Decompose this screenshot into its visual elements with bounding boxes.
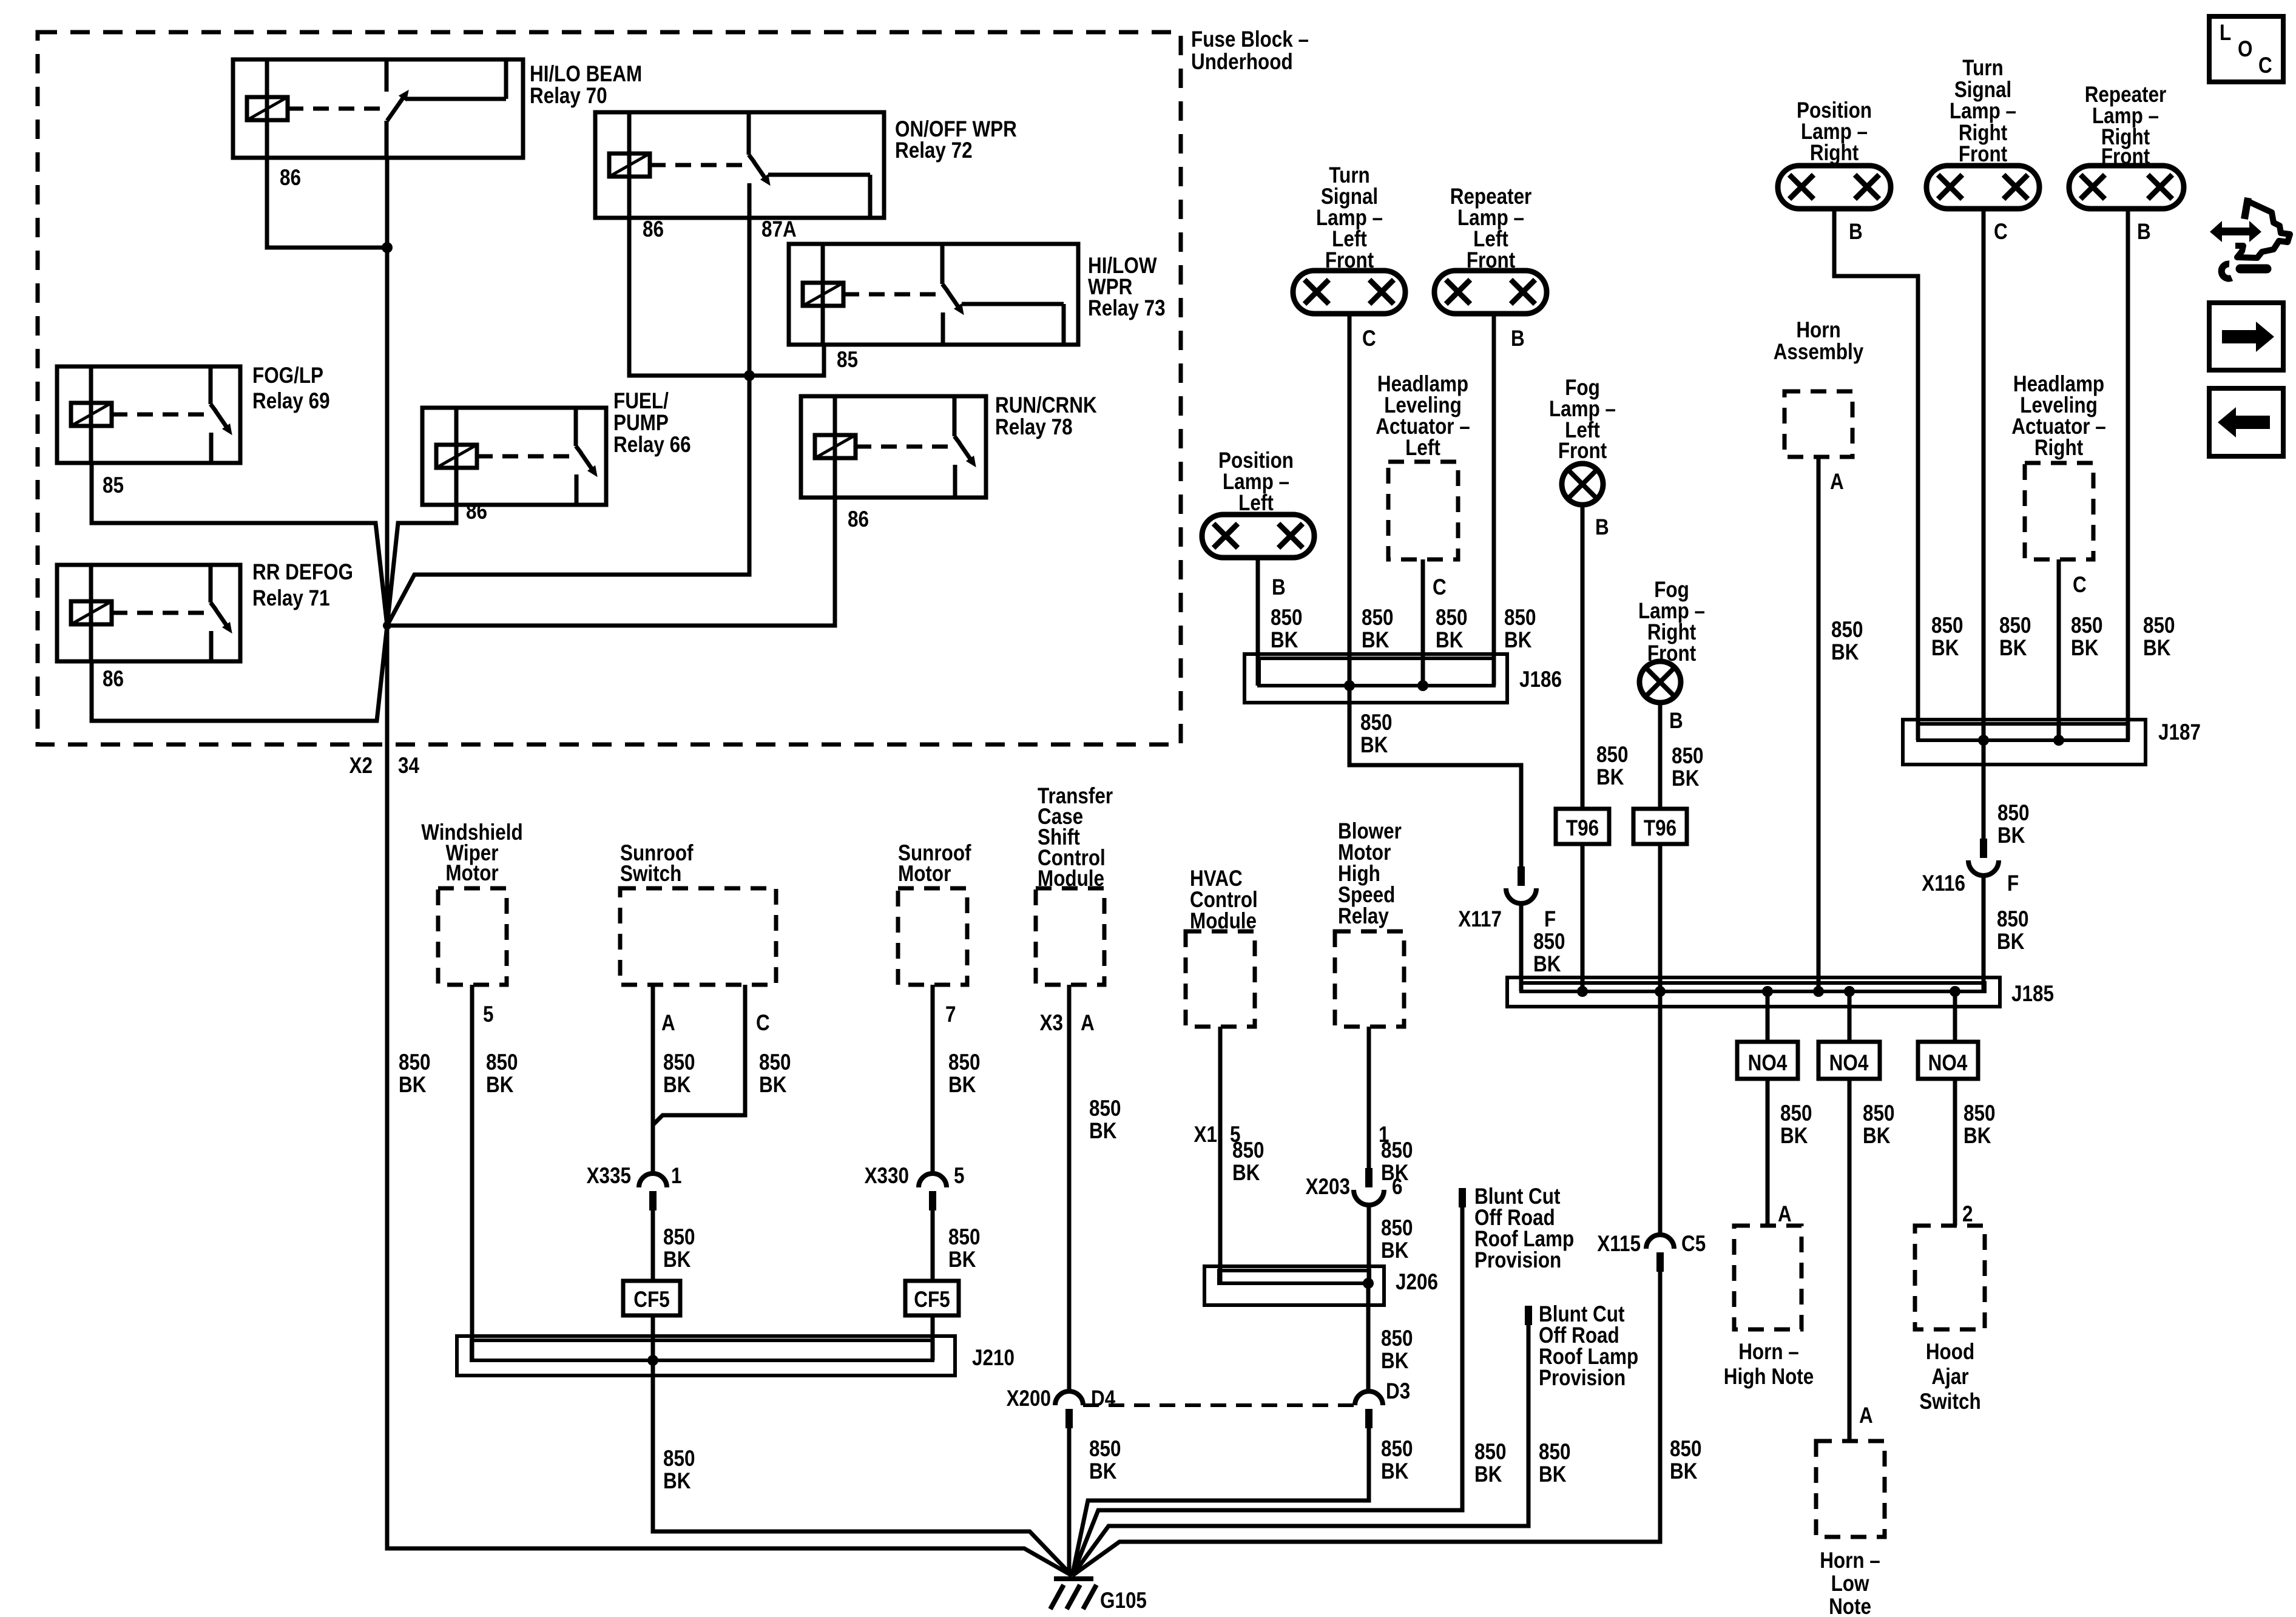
fuse T96 right	[1633, 809, 1687, 844]
svg-text:Left: Left	[1405, 436, 1440, 461]
svg-text:850: 850	[399, 1050, 430, 1075]
svg-text:BK: BK	[1670, 1459, 1698, 1484]
splice pack J187	[1903, 720, 2146, 765]
wire relay70 pin86 down and right to trunk	[267, 158, 387, 248]
connector X116	[1980, 839, 1987, 858]
wire repeater left B to J186	[1492, 314, 1496, 686]
svg-text:86: 86	[466, 499, 487, 524]
svg-text:850: 850	[1596, 743, 1628, 768]
svg-text:B: B	[1511, 326, 1525, 351]
svg-text:BK: BK	[1780, 1124, 1808, 1149]
wire position right B to J187	[1834, 209, 1918, 740]
wire NO4 middle to horn low note	[1848, 1079, 1852, 1441]
svg-text:C: C	[1433, 575, 1447, 600]
fuse T96 left	[1556, 809, 1609, 844]
svg-text:BK: BK	[1381, 1238, 1409, 1263]
svg-text:A: A	[1081, 1011, 1095, 1036]
svg-text:2: 2	[1962, 1202, 1973, 1227]
svg-text:BK: BK	[2143, 636, 2171, 661]
svg-text:85: 85	[103, 473, 124, 498]
wire turn right C to J187	[1982, 209, 1986, 740]
svg-text:T96: T96	[1566, 816, 1599, 841]
svg-text:T96: T96	[1644, 816, 1676, 841]
wire relay78 pin86 to main junction	[387, 498, 835, 626]
svg-text:850: 850	[1533, 930, 1565, 954]
svg-text:RUN/CRNK: RUN/CRNK	[995, 393, 1097, 418]
svg-text:BK: BK	[1997, 930, 2025, 954]
connector X117	[1518, 866, 1525, 886]
wire T96 right to J185	[1658, 844, 1663, 991]
svg-text:850: 850	[1863, 1101, 1894, 1126]
component box Horn Assembly	[1784, 391, 1852, 457]
svg-text:850: 850	[948, 1050, 980, 1075]
component box Headlamp Leveling Actuator Left	[1388, 462, 1458, 559]
svg-text:A: A	[1778, 1202, 1792, 1227]
fuse CF5 right	[905, 1281, 959, 1315]
wire actuator left C to J186	[1421, 559, 1425, 686]
svg-text:BK: BK	[1672, 766, 1700, 791]
svg-text:BK: BK	[1596, 765, 1624, 790]
lamp Position Lamp Left	[1202, 515, 1314, 558]
svg-text:BK: BK	[948, 1247, 976, 1272]
splice pack J186	[1244, 654, 1507, 703]
wire sunroof switch pinA down	[651, 985, 655, 1173]
fuse block underhood dashed border	[38, 32, 1181, 744]
wire actuator right C to J187	[2057, 559, 2061, 740]
svg-text:F: F	[1544, 907, 1556, 932]
svg-text:Underhood: Underhood	[1191, 50, 1293, 75]
svg-text:O: O	[2238, 37, 2252, 62]
svg-text:J210: J210	[972, 1346, 1015, 1371]
svg-text:850: 850	[1931, 613, 1963, 638]
svg-text:BK: BK	[1533, 952, 1561, 977]
svg-text:Provision: Provision	[1474, 1248, 1561, 1273]
svg-text:X335: X335	[587, 1164, 631, 1189]
svg-text:850: 850	[1999, 613, 2031, 638]
wire J187 output to X116	[1982, 740, 1986, 839]
svg-text:D4: D4	[1091, 1386, 1115, 1411]
component box Transfer Case Shift Control Module	[1036, 888, 1104, 985]
component box Horn Low Note	[1816, 1441, 1885, 1537]
svg-text:CF5: CF5	[914, 1288, 950, 1312]
svg-text:Horn: Horn	[1796, 318, 1840, 343]
splice pack J185	[1507, 977, 2000, 1007]
svg-text:BK: BK	[1831, 640, 1859, 665]
wire relay73 pin85 down to 87A junction	[749, 345, 824, 376]
svg-text:Relay 66: Relay 66	[613, 433, 691, 457]
svg-text:B: B	[1849, 220, 1863, 245]
wire X335 to CF5 fuse	[651, 1210, 655, 1281]
svg-text:87A: 87A	[761, 217, 797, 242]
svg-text:850: 850	[1232, 1138, 1264, 1163]
wire J185 to X115 via fog right column	[1658, 991, 1663, 1235]
legend arrow left box	[2209, 388, 2283, 456]
wire windshield wiper motor pin5 to J210	[470, 985, 474, 1360]
svg-text:BK: BK	[2071, 636, 2099, 661]
svg-text:X200: X200	[1007, 1386, 1051, 1411]
svg-text:850: 850	[663, 1050, 695, 1075]
relay R71 RR DEFOG	[57, 565, 240, 661]
component box Headlamp Leveling Actuator Right	[2025, 463, 2093, 559]
svg-text:850: 850	[1670, 1437, 1701, 1462]
wire CF5 to J210 right	[931, 1315, 935, 1360]
svg-text:X115: X115	[1597, 1232, 1641, 1257]
svg-text:CF5: CF5	[633, 1288, 669, 1312]
fog lamp Fog Lamp Right Front	[1639, 661, 1681, 703]
svg-text:850: 850	[1381, 1437, 1413, 1462]
svg-text:BK: BK	[1504, 628, 1532, 653]
svg-text:BK: BK	[1931, 636, 1959, 661]
splice pack J206	[1204, 1266, 1384, 1305]
svg-text:BK: BK	[1360, 733, 1388, 758]
component box Windshield Wiper Motor	[438, 888, 507, 985]
svg-text:X2: X2	[349, 754, 373, 778]
wire repeater right B to J187	[2126, 209, 2130, 740]
component box Sunroof Switch	[620, 888, 776, 985]
svg-text:B: B	[1272, 575, 1286, 600]
svg-text:850: 850	[1539, 1440, 1570, 1465]
wire X117 to J185	[1519, 903, 1524, 991]
wire relay71 pin86 to main junction	[92, 626, 387, 721]
wire X200 down to G105	[1069, 1428, 1072, 1576]
svg-text:BK: BK	[1539, 1462, 1567, 1487]
svg-text:X203: X203	[1306, 1175, 1350, 1200]
wire relay69 pin85 to main junction	[92, 463, 387, 626]
dashed link D4 to D3	[1083, 1403, 1355, 1407]
svg-text:BK: BK	[663, 1073, 691, 1098]
svg-text:850: 850	[1381, 1216, 1413, 1241]
svg-text:Note: Note	[1829, 1595, 1871, 1617]
junction dot at relay70 common	[382, 242, 393, 253]
wire X116 to J185	[1982, 876, 1986, 991]
svg-text:850: 850	[1362, 606, 1393, 630]
svg-text:850: 850	[1504, 606, 1536, 630]
svg-text:B: B	[2137, 220, 2151, 245]
wire T96 left to J185	[1581, 844, 1585, 991]
svg-text:BK: BK	[948, 1073, 976, 1098]
svg-text:BK: BK	[1963, 1124, 1991, 1149]
svg-text:BK: BK	[663, 1247, 691, 1272]
wire J210 output to ground collector	[653, 1360, 1072, 1576]
svg-text:FUEL/: FUEL/	[613, 389, 669, 414]
wire horn assembly A to J185	[1817, 457, 1821, 991]
wire blunt cut 1 to G105	[1072, 1207, 1462, 1576]
blunt cut wire 2 terminal	[1525, 1306, 1532, 1325]
svg-text:X3: X3	[1040, 1011, 1063, 1036]
svg-text:BK: BK	[1381, 1349, 1409, 1374]
svg-text:Relay 72: Relay 72	[895, 138, 973, 163]
lamp Position Lamp Right	[1778, 166, 1891, 209]
connector X115 C5	[1646, 1235, 1674, 1249]
svg-text:850: 850	[1381, 1326, 1413, 1351]
svg-text:Switch: Switch	[620, 862, 681, 886]
relay R72 ON/OFF WPR	[595, 112, 884, 218]
svg-text:BK: BK	[759, 1073, 787, 1098]
wire D3 down to G105	[1072, 1428, 1369, 1576]
svg-text:C: C	[2073, 573, 2087, 598]
svg-text:A: A	[1830, 470, 1844, 495]
svg-text:7: 7	[945, 1002, 956, 1027]
svg-text:6: 6	[1392, 1175, 1402, 1200]
svg-text:Relay 73: Relay 73	[1088, 296, 1166, 321]
svg-text:J186: J186	[1519, 667, 1562, 692]
svg-text:Low: Low	[1831, 1571, 1869, 1596]
svg-text:J187: J187	[2158, 720, 2201, 745]
svg-text:BK: BK	[1381, 1459, 1409, 1484]
svg-text:BK: BK	[1362, 628, 1389, 653]
junction dot main trunk node	[383, 621, 391, 630]
svg-text:86: 86	[280, 166, 301, 191]
relay R70 HI/LO BEAM	[233, 59, 523, 158]
svg-text:850: 850	[1997, 801, 2029, 826]
svg-text:BK: BK	[1997, 823, 2025, 848]
svg-text:BK: BK	[1436, 628, 1464, 653]
svg-text:5: 5	[954, 1164, 964, 1189]
svg-text:BK: BK	[1089, 1459, 1117, 1484]
svg-text:RR DEFOG: RR DEFOG	[252, 560, 353, 585]
wire X115 down to G105	[1072, 1272, 1660, 1576]
wire relay66 pin86 to main junction	[387, 505, 456, 626]
svg-text:BK: BK	[1999, 636, 2027, 661]
svg-text:B: B	[1669, 709, 1683, 734]
svg-text:Relay 71: Relay 71	[252, 586, 330, 611]
wire hvac pin5 to J206	[1218, 1027, 1223, 1283]
svg-text:C: C	[1994, 220, 2008, 245]
svg-text:Right: Right	[2034, 436, 2084, 461]
svg-text:High Note: High Note	[1724, 1365, 1814, 1389]
svg-text:Motor: Motor	[445, 861, 498, 886]
svg-text:NO4: NO4	[1829, 1051, 1869, 1076]
svg-text:850: 850	[1089, 1096, 1121, 1121]
svg-text:86: 86	[848, 507, 869, 532]
svg-text:J185: J185	[2011, 982, 2054, 1007]
svg-text:1: 1	[671, 1164, 681, 1189]
svg-text:85: 85	[837, 348, 858, 373]
svg-text:850: 850	[1436, 606, 1467, 630]
svg-text:850: 850	[1271, 606, 1302, 630]
component box Sunroof Motor	[898, 888, 967, 985]
svg-text:Assembly: Assembly	[1774, 340, 1864, 365]
svg-text:C: C	[1362, 326, 1376, 351]
svg-text:L: L	[2220, 21, 2231, 46]
wire NO4 left to horn high note	[1766, 1079, 1770, 1226]
wire relay72 pin87A down to main junction	[387, 218, 749, 626]
svg-text:850: 850	[759, 1050, 791, 1075]
svg-text:850: 850	[1360, 711, 1392, 735]
svg-text:D3: D3	[1386, 1379, 1410, 1404]
svg-text:X1: X1	[1194, 1122, 1217, 1147]
wire sunroof switch pinC down joining A	[653, 985, 745, 1125]
icon diagnostic double arrow wrench	[2210, 198, 2290, 279]
svg-text:Right: Right	[1810, 141, 1859, 166]
svg-text:Left: Left	[1238, 491, 1274, 516]
svg-text:X116: X116	[1922, 871, 1965, 896]
svg-text:NO4: NO4	[1748, 1051, 1788, 1076]
svg-text:850: 850	[2143, 613, 2175, 638]
svg-text:850: 850	[1672, 744, 1703, 769]
svg-text:C: C	[2258, 53, 2272, 78]
svg-text:5: 5	[483, 1002, 493, 1027]
svg-text:FOG/LP: FOG/LP	[252, 363, 323, 388]
svg-text:J206: J206	[1396, 1270, 1438, 1295]
svg-text:850: 850	[1474, 1440, 1506, 1465]
svg-text:86: 86	[103, 667, 124, 692]
svg-text:850: 850	[663, 1225, 695, 1250]
svg-text:850: 850	[1089, 1437, 1121, 1462]
splice pack J210	[457, 1336, 955, 1376]
wire fog left B to T96	[1581, 505, 1585, 809]
wire fog right B to T96	[1658, 703, 1663, 809]
wire relay72 pin86 down to 87A junction	[629, 218, 749, 376]
svg-text:Turn: Turn	[1962, 56, 2004, 81]
wire J185 to NO4 left	[1766, 991, 1770, 1042]
junction dot 87A node	[744, 370, 755, 381]
svg-text:Ajar: Ajar	[1931, 1365, 1968, 1389]
fog lamp Fog Lamp Left Front	[1562, 464, 1603, 505]
svg-text:X117: X117	[1458, 907, 1502, 932]
svg-text:G105: G105	[1100, 1588, 1147, 1613]
relay R78 RUN/CRNK	[801, 396, 986, 498]
relay R73 HI/LOW WPR	[789, 244, 1078, 345]
wire main trunk from relay70 to ground collector	[387, 158, 1072, 1576]
svg-text:BK: BK	[663, 1469, 691, 1494]
svg-text:850: 850	[1831, 618, 1863, 643]
wire J185 to NO4 middle	[1848, 991, 1852, 1042]
wire sunroof motor pin7 down	[931, 985, 935, 1173]
svg-text:Relay: Relay	[1338, 904, 1389, 929]
svg-text:Fuse Block –: Fuse Block –	[1191, 27, 1309, 52]
svg-text:850: 850	[948, 1225, 980, 1250]
svg-text:BK: BK	[1089, 1119, 1117, 1144]
connector X203	[1365, 1168, 1373, 1187]
svg-text:BK: BK	[1863, 1124, 1891, 1149]
fuse NO4 middle	[1818, 1042, 1880, 1079]
wire tcscm pinA down to X200	[1067, 985, 1072, 1391]
component box Hood Ajar Switch	[1915, 1226, 1985, 1329]
svg-text:Relay 78: Relay 78	[995, 415, 1073, 440]
svg-text:850: 850	[1381, 1138, 1413, 1163]
component box Blower Motor High Speed Relay	[1335, 931, 1404, 1027]
lamp Turn Signal Lamp Right Front	[1926, 166, 2039, 209]
svg-text:X330: X330	[865, 1164, 909, 1189]
svg-text:Horn –: Horn –	[1820, 1548, 1880, 1573]
svg-text:BK: BK	[1271, 628, 1298, 653]
svg-text:Front: Front	[1959, 142, 2008, 167]
svg-text:Lamp –: Lamp –	[1950, 99, 2016, 124]
legend LOC box	[2209, 16, 2283, 82]
relay R66 FUEL/PUMP	[422, 408, 606, 505]
connector D3	[1355, 1391, 1383, 1405]
legend arrow right box	[2209, 303, 2283, 370]
svg-text:850: 850	[663, 1447, 695, 1471]
svg-text:850: 850	[486, 1050, 518, 1075]
wire blunt cut 2 to G105	[1072, 1325, 1528, 1576]
svg-text:B: B	[1595, 515, 1609, 540]
component box Horn High Note	[1734, 1226, 1801, 1329]
wire J185 to NO4 right	[1953, 991, 1957, 1042]
svg-text:Relay 70: Relay 70	[530, 84, 607, 109]
svg-text:F: F	[2007, 871, 2019, 896]
connector X330	[919, 1173, 947, 1187]
svg-text:HI/LO BEAM: HI/LO BEAM	[530, 62, 642, 87]
component box HVAC Control Module	[1186, 931, 1255, 1027]
wire position lamp left B to J186	[1256, 558, 1260, 686]
wire X203 to J206	[1367, 1205, 1371, 1283]
svg-text:A: A	[1859, 1403, 1873, 1428]
svg-text:C: C	[756, 1011, 770, 1036]
fuse NO4 left	[1737, 1042, 1798, 1079]
lamp Repeater Lamp Right Front	[2069, 166, 2184, 209]
lamp Repeater Lamp Left Front	[1434, 271, 1547, 314]
wire X330 to CF5 fuse	[931, 1210, 935, 1281]
svg-text:BK: BK	[1232, 1161, 1260, 1186]
svg-text:850: 850	[2071, 613, 2102, 638]
svg-text:Provision: Provision	[1539, 1366, 1626, 1391]
svg-text:34: 34	[398, 754, 419, 778]
svg-text:Horn –: Horn –	[1738, 1340, 1799, 1365]
svg-text:NO4: NO4	[1928, 1051, 1968, 1076]
fuse CF5 left	[623, 1281, 680, 1315]
svg-text:86: 86	[643, 217, 664, 242]
svg-text:850: 850	[1997, 907, 2028, 932]
svg-text:BK: BK	[399, 1073, 427, 1098]
wire CF5 to J210	[651, 1315, 655, 1360]
connector X200 D4	[1055, 1391, 1083, 1405]
svg-text:BK: BK	[486, 1073, 514, 1098]
svg-text:Front: Front	[1558, 439, 1607, 464]
svg-text:Relay 69: Relay 69	[252, 389, 330, 414]
ground G105	[1050, 1579, 1096, 1609]
blunt cut wire 1 terminal	[1459, 1188, 1466, 1207]
fuse NO4 right	[1918, 1042, 1978, 1079]
wire J206 output down to D3	[1366, 1283, 1371, 1391]
svg-text:Switch: Switch	[1919, 1389, 1980, 1414]
wire NO4 right to hood ajar switch	[1953, 1079, 1957, 1226]
svg-text:PUMP: PUMP	[613, 411, 669, 436]
wire J186 output to X117	[1349, 686, 1521, 866]
relay R69 FOG/LP	[57, 366, 240, 463]
svg-text:Motor: Motor	[898, 862, 951, 886]
lamp Turn Signal Lamp Left Front	[1293, 271, 1405, 314]
svg-text:C5: C5	[1681, 1232, 1706, 1257]
svg-text:A: A	[661, 1011, 675, 1036]
wire blower pin1 down to X203	[1367, 1027, 1371, 1168]
svg-text:850: 850	[1780, 1101, 1812, 1126]
svg-text:BK: BK	[1474, 1462, 1502, 1487]
svg-text:Hood: Hood	[1926, 1340, 1974, 1365]
svg-text:850: 850	[1963, 1101, 1995, 1126]
connector X335	[639, 1173, 667, 1187]
wire turn signal left C to J186	[1348, 314, 1352, 686]
